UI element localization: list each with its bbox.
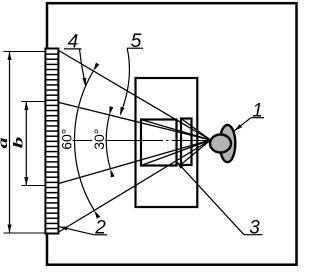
30 degree dimension arc	[106, 115, 110, 169]
leader to item 1	[234, 118, 251, 131]
label 60 degrees	[58, 127, 74, 151]
wire: beam to aperture top-left	[181, 119, 211, 141]
dimension b line with arrows	[25, 102, 27, 186]
dimension b extension lines	[22, 101, 46, 103]
svg-text:4: 4	[68, 32, 79, 53]
svg-text:3: 3	[249, 218, 260, 239]
inner rectangle (detector block)	[141, 120, 177, 166]
svg-text:5: 5	[131, 31, 142, 52]
svg-text:a: a	[0, 138, 11, 149]
wire: 30deg cone lower boundary	[57, 140, 211, 184]
wire: beam to inner-rect top-left	[141, 120, 211, 141]
hatched screen bar (item 2)	[45, 49, 58, 234]
svg-text:60°: 60°	[58, 129, 74, 150]
svg-text:30°: 30°	[91, 129, 107, 150]
svg-text:2: 2	[94, 218, 106, 239]
60 degree dimension arc (item 4)	[75, 71, 95, 211]
wire: 60deg cone upper boundary	[57, 50, 211, 141]
source / speaker (item 1) back ellipse	[220, 125, 236, 162]
leader to item 2	[59, 227, 94, 235]
svg-text:b: b	[12, 137, 27, 149]
leader to item 3	[176, 161, 244, 235]
dimension a extension lines	[4, 51, 46, 53]
leader to item 5	[120, 48, 129, 114]
device box	[136, 78, 198, 207]
wire: beam to aperture bottom-left	[181, 140, 211, 165]
leader to item 4	[80, 49, 86, 86]
wire: 30deg cone upper boundary (item 5)	[57, 102, 211, 140]
source / speaker (item 1) front ellipse	[210, 135, 231, 153]
dimension a line with arrows	[9, 52, 11, 234]
aperture slit rectangle (item 3)	[181, 119, 192, 166]
wire: 60deg cone lower boundary	[57, 140, 211, 233]
wire: axis centerline	[59, 140, 212, 142]
label 30 degrees	[91, 127, 107, 151]
room: measurement chamber outline	[47, 3, 297, 265]
svg-text:1: 1	[252, 101, 263, 122]
wire: beam to inner-rect bottom-left	[141, 140, 211, 166]
